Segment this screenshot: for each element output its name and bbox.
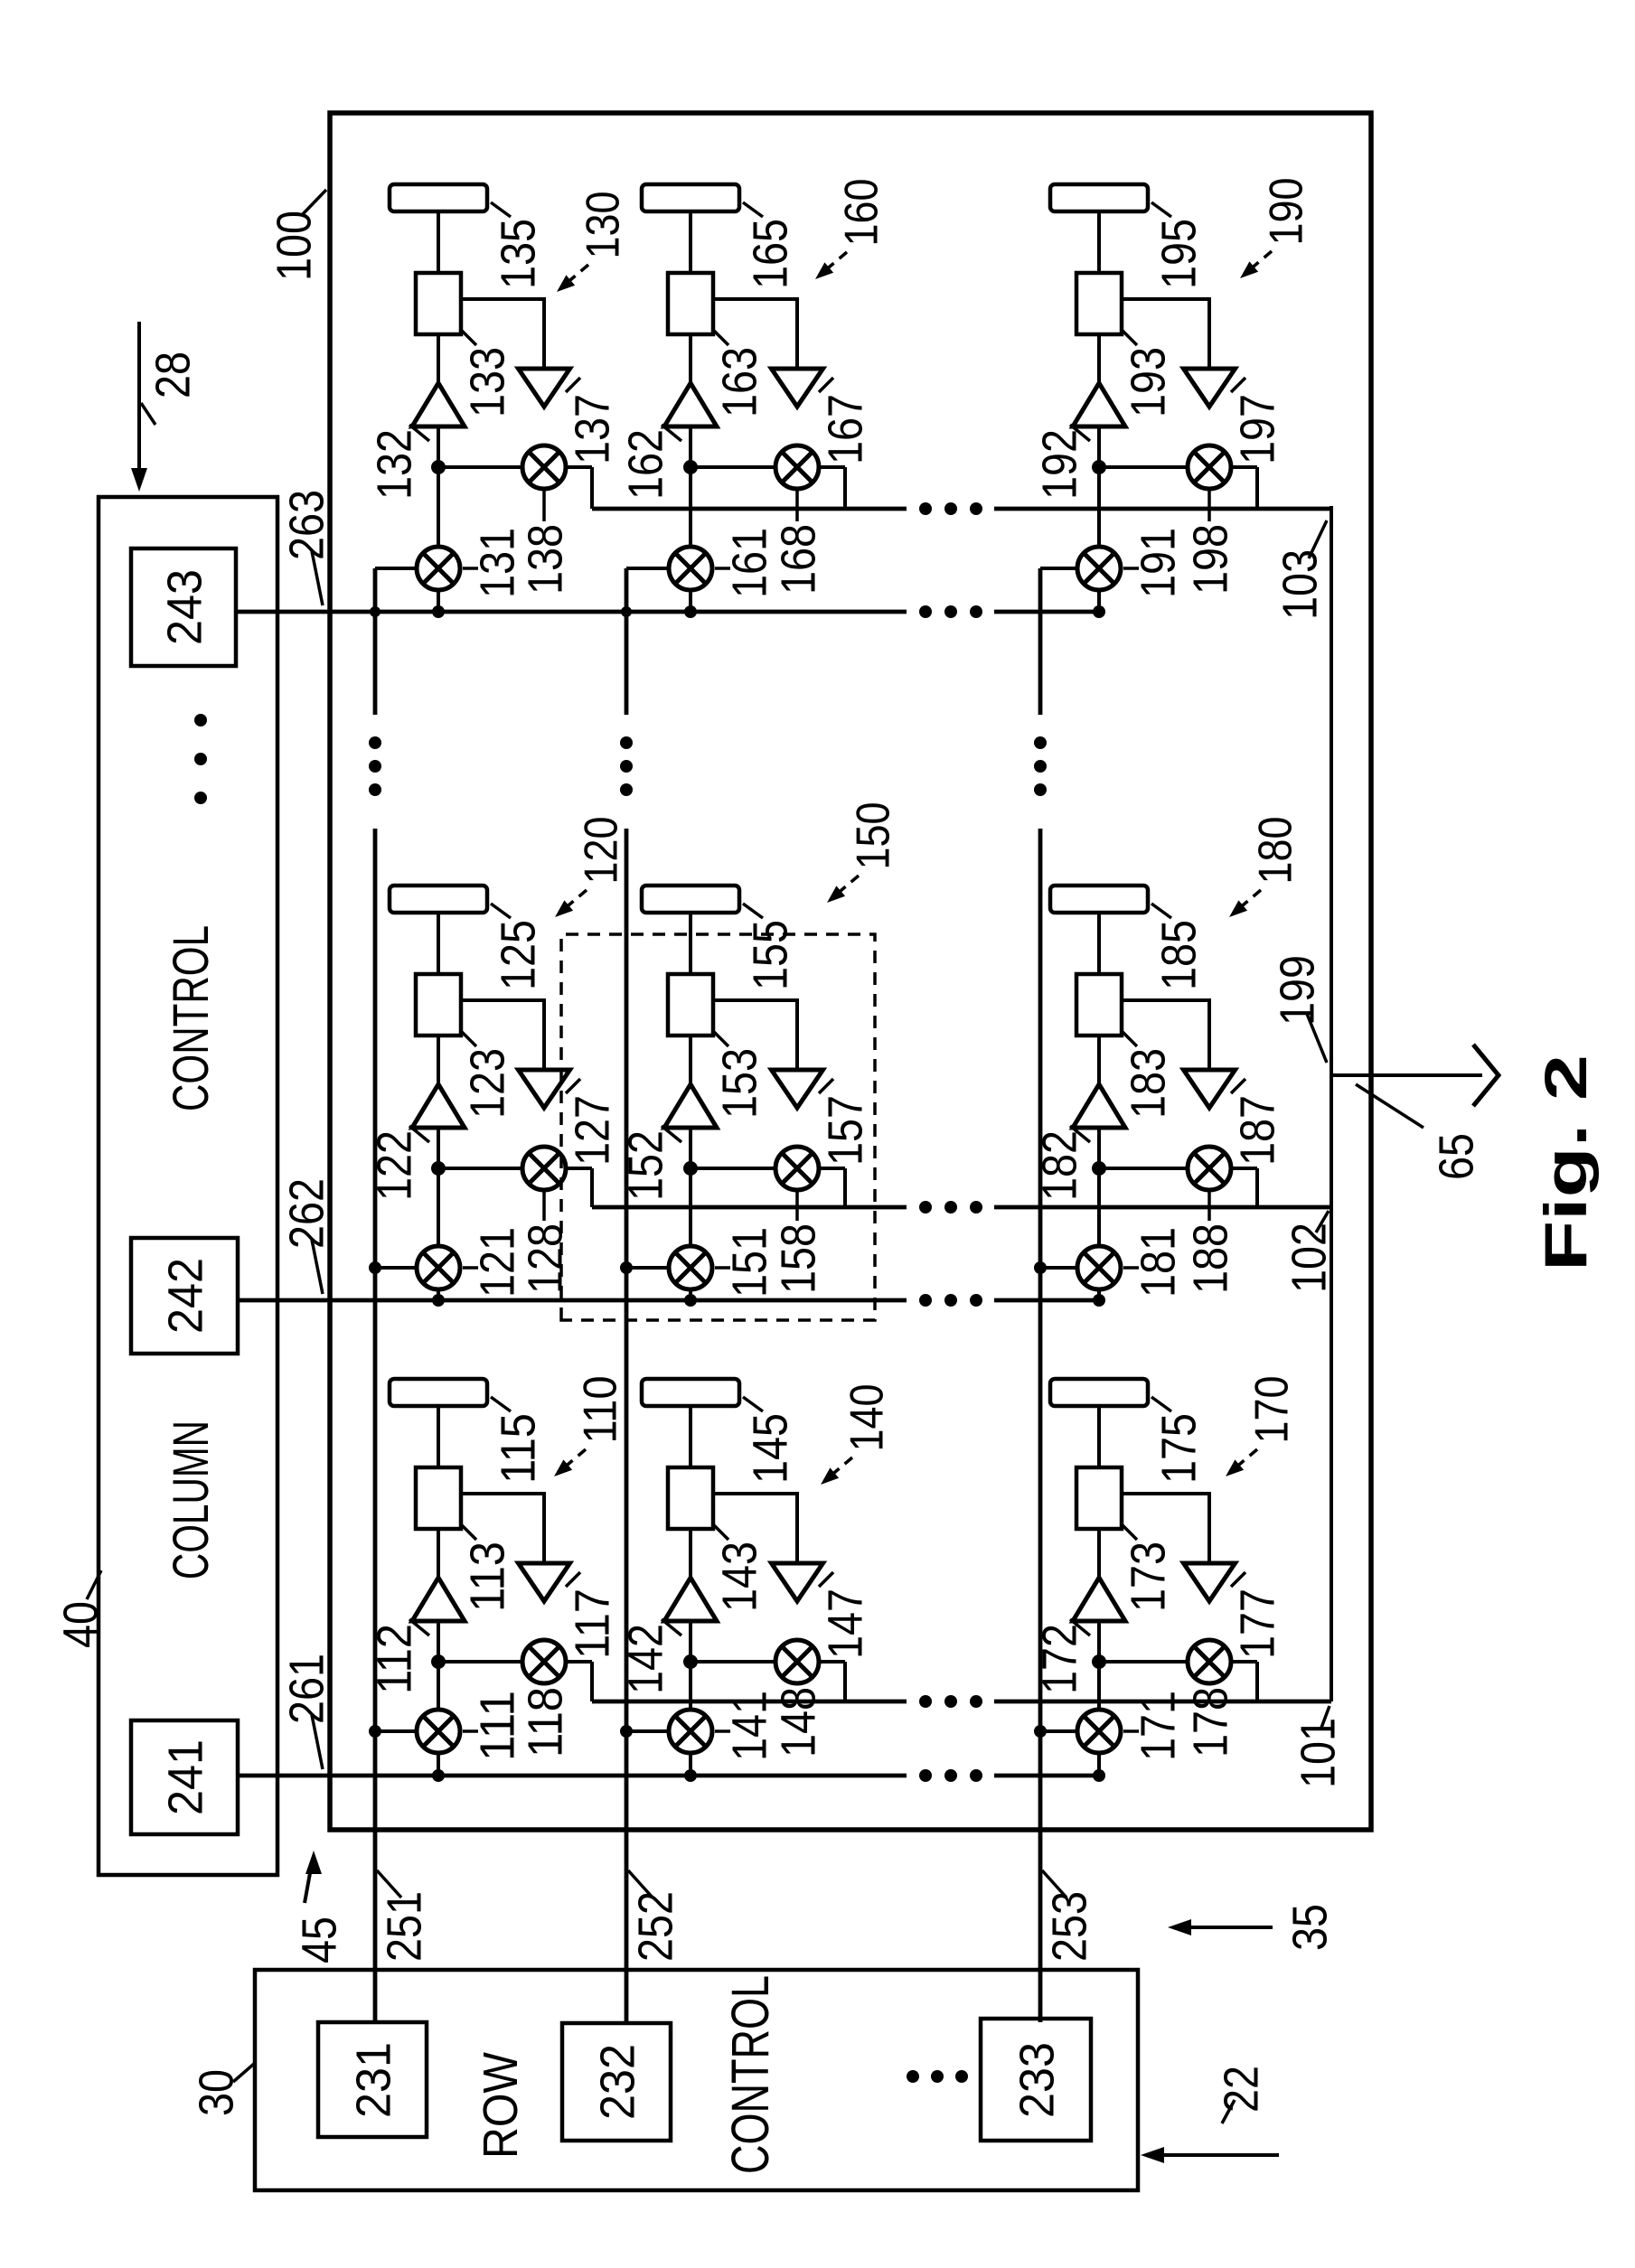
svg-text:181: 181 bbox=[1131, 1227, 1185, 1298]
svg-text:173: 173 bbox=[1121, 1542, 1175, 1612]
svg-text:115: 115 bbox=[491, 1413, 545, 1484]
svg-text:112: 112 bbox=[367, 1624, 421, 1694]
svg-text:177: 177 bbox=[1230, 1589, 1284, 1659]
svg-text:160: 160 bbox=[836, 179, 888, 247]
svg-text:141: 141 bbox=[722, 1691, 776, 1761]
svg-text:188: 188 bbox=[1183, 1223, 1237, 1294]
svg-text:198: 198 bbox=[1183, 524, 1237, 595]
svg-text:199: 199 bbox=[1270, 955, 1324, 1026]
svg-text:175: 175 bbox=[1151, 1413, 1206, 1484]
svg-text:180: 180 bbox=[1250, 817, 1302, 885]
svg-text:135: 135 bbox=[491, 219, 545, 289]
svg-text:263: 263 bbox=[279, 490, 334, 560]
svg-text:241: 241 bbox=[158, 1739, 212, 1815]
svg-text:22: 22 bbox=[1214, 2066, 1268, 2113]
svg-text:125: 125 bbox=[491, 920, 545, 990]
svg-text:165: 165 bbox=[743, 219, 797, 289]
svg-text:103: 103 bbox=[1273, 549, 1327, 620]
svg-text:157: 157 bbox=[818, 1095, 872, 1166]
svg-text:65: 65 bbox=[1429, 1133, 1483, 1180]
svg-text:138: 138 bbox=[518, 524, 572, 595]
svg-text:171: 171 bbox=[1131, 1691, 1185, 1761]
svg-text:155: 155 bbox=[743, 920, 797, 990]
svg-text:121: 121 bbox=[470, 1227, 524, 1298]
svg-text:110: 110 bbox=[575, 1376, 627, 1444]
svg-text:163: 163 bbox=[712, 347, 766, 417]
svg-text:262: 262 bbox=[279, 1178, 334, 1249]
svg-text:150: 150 bbox=[848, 802, 900, 870]
svg-text:261: 261 bbox=[279, 1654, 334, 1724]
svg-text:161: 161 bbox=[722, 528, 776, 598]
svg-text:130: 130 bbox=[578, 192, 630, 259]
svg-text:122: 122 bbox=[367, 1130, 421, 1201]
svg-text:183: 183 bbox=[1121, 1048, 1175, 1119]
svg-text:117: 117 bbox=[565, 1589, 619, 1659]
svg-text:COLUMN: COLUMN bbox=[162, 1420, 219, 1579]
svg-text:113: 113 bbox=[460, 1542, 514, 1612]
svg-text:111: 111 bbox=[470, 1691, 524, 1761]
svg-text:102: 102 bbox=[1282, 1223, 1336, 1293]
svg-text:153: 153 bbox=[712, 1048, 766, 1119]
svg-text:CONTROL: CONTROL bbox=[721, 1975, 780, 2174]
svg-text:185: 185 bbox=[1151, 920, 1206, 990]
svg-text:170: 170 bbox=[1246, 1376, 1299, 1444]
svg-text:120: 120 bbox=[576, 817, 628, 885]
svg-text:253: 253 bbox=[1042, 1891, 1096, 1962]
svg-text:CONTROL: CONTROL bbox=[162, 925, 219, 1111]
svg-text:232: 232 bbox=[590, 2044, 644, 2120]
svg-text:168: 168 bbox=[771, 524, 825, 595]
svg-text:Fig. 2: Fig. 2 bbox=[1532, 1054, 1599, 1271]
svg-text:ROW: ROW bbox=[474, 2052, 528, 2159]
svg-text:101: 101 bbox=[1291, 1718, 1345, 1788]
svg-text:131: 131 bbox=[470, 528, 524, 598]
svg-text:30: 30 bbox=[189, 2069, 243, 2116]
svg-text:142: 142 bbox=[618, 1624, 672, 1694]
svg-text:35: 35 bbox=[1283, 1904, 1337, 1951]
svg-text:118: 118 bbox=[518, 1687, 572, 1757]
svg-text:178: 178 bbox=[1183, 1687, 1237, 1757]
svg-text:45: 45 bbox=[292, 1917, 346, 1963]
svg-text:143: 143 bbox=[712, 1542, 766, 1612]
svg-text:243: 243 bbox=[157, 569, 211, 645]
svg-text:140: 140 bbox=[841, 1384, 894, 1452]
svg-text:145: 145 bbox=[743, 1413, 797, 1484]
svg-text:158: 158 bbox=[771, 1223, 825, 1294]
svg-text:40: 40 bbox=[53, 1601, 108, 1648]
svg-text:152: 152 bbox=[618, 1130, 672, 1201]
svg-text:148: 148 bbox=[771, 1687, 825, 1757]
svg-text:137: 137 bbox=[565, 394, 619, 464]
svg-text:251: 251 bbox=[377, 1891, 431, 1962]
svg-text:123: 123 bbox=[460, 1048, 514, 1119]
svg-text:127: 127 bbox=[565, 1095, 619, 1166]
svg-text:28: 28 bbox=[146, 351, 200, 398]
svg-text:187: 187 bbox=[1230, 1095, 1284, 1166]
svg-text:151: 151 bbox=[722, 1227, 776, 1298]
svg-text:231: 231 bbox=[346, 2042, 400, 2118]
svg-text:191: 191 bbox=[1131, 528, 1185, 598]
svg-text:162: 162 bbox=[618, 429, 672, 500]
svg-text:133: 133 bbox=[460, 347, 514, 417]
svg-text:100: 100 bbox=[267, 211, 321, 281]
svg-text:195: 195 bbox=[1151, 219, 1206, 289]
svg-text:132: 132 bbox=[367, 429, 421, 500]
svg-text:167: 167 bbox=[818, 394, 872, 464]
svg-text:190: 190 bbox=[1261, 178, 1313, 246]
svg-text:192: 192 bbox=[1032, 429, 1086, 500]
svg-text:147: 147 bbox=[818, 1589, 872, 1659]
svg-text:252: 252 bbox=[628, 1891, 682, 1962]
svg-text:128: 128 bbox=[518, 1223, 572, 1294]
svg-text:172: 172 bbox=[1032, 1624, 1086, 1694]
svg-text:242: 242 bbox=[158, 1258, 212, 1334]
svg-text:182: 182 bbox=[1032, 1130, 1086, 1201]
svg-text:197: 197 bbox=[1230, 394, 1284, 464]
svg-text:233: 233 bbox=[1010, 2042, 1064, 2118]
svg-text:193: 193 bbox=[1121, 347, 1175, 417]
